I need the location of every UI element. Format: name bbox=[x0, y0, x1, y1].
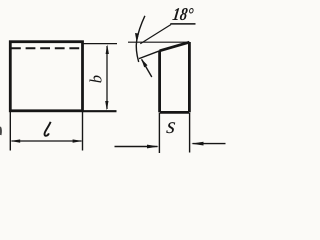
leader line from 18deg label bbox=[140, 25, 171, 44]
left view: hidden edge (dashed line) bbox=[11, 47, 81, 49]
dimension s: right arrowhead bbox=[191, 142, 203, 146]
dimension l: right extension line bbox=[82, 112, 84, 151]
dimension s: left arrowhead bbox=[147, 145, 159, 149]
angle ref: horizontal extension line through apex bbox=[128, 41, 189, 43]
dimension l: right arrowhead bbox=[73, 139, 83, 142]
angle ref: slant extension beyond top-left corner bbox=[139, 51, 160, 59]
svg-text:b: b bbox=[87, 75, 106, 83]
dimension b: top extension line bbox=[84, 43, 118, 45]
left view: plate body outline bbox=[10, 42, 82, 111]
angle dimension arc (18 deg) bbox=[136, 16, 145, 62]
leader shelf under 18deg label bbox=[170, 23, 195, 25]
dimension b: lower arrowhead bbox=[105, 101, 108, 110]
angle arrow shaft at slant line bbox=[142, 59, 152, 77]
dimension l: label script ell bbox=[45, 122, 51, 136]
dimension s: left extension line bbox=[158, 113, 160, 153]
dimension b: dimension line bbox=[106, 46, 108, 109]
svg-text:18°: 18° bbox=[171, 4, 195, 24]
dimension l: dimension line bbox=[12, 140, 82, 142]
dimension l: left arrowhead bbox=[11, 139, 21, 142]
right view: blade body (thick outline) bbox=[160, 42, 190, 112]
dimension s: right dimension line with inward arrow bbox=[193, 143, 226, 145]
angle arrow arrowhead at slant line bbox=[141, 59, 147, 68]
dimension b: bottom extension line bbox=[84, 110, 117, 112]
dimension l: left extension line bbox=[9, 112, 11, 151]
dimension b: upper arrowhead bbox=[106, 44, 109, 54]
angle arc arrowhead at horizontal line bbox=[135, 33, 139, 43]
scan smudge at left edge bbox=[0, 127, 2, 135]
dimension s: right extension line bbox=[189, 113, 191, 153]
dimension s: left dimension line with inward arrow bbox=[115, 146, 158, 148]
